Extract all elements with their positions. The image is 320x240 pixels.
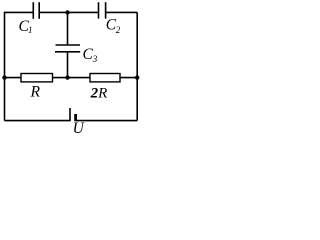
wire top left segment (4, 11, 34, 13)
wire middle center segment (53, 77, 91, 79)
wire middle right segment (120, 77, 137, 79)
wire middle left segment (5, 77, 22, 79)
wire C3 bottom lead (67, 52, 69, 78)
battery U long plate (69, 108, 71, 121)
capacitor C1 (33, 2, 39, 19)
battery U short thick plate (74, 114, 77, 121)
node junction center (65, 75, 69, 79)
svg-text:U: U (73, 120, 86, 134)
wire bottom right segment (76, 120, 138, 122)
wire bottom left segment (5, 120, 71, 122)
resistor R (21, 74, 53, 82)
capacitor C2 (99, 2, 106, 18)
svg-text:R: R (30, 83, 41, 100)
node junction right (135, 75, 139, 79)
svg-text:2R: 2R (90, 86, 108, 102)
resistor 2R (90, 74, 120, 82)
svg-text:1: 1 (28, 25, 33, 35)
capacitor C3 (55, 45, 80, 52)
node junction top center (65, 10, 69, 14)
label C2 (106, 17, 121, 35)
label C3 (83, 46, 98, 64)
svg-text:3: 3 (92, 54, 98, 64)
wire top middle segment (39, 11, 98, 13)
wire right edge (136, 12, 138, 120)
svg-text:2: 2 (116, 25, 121, 35)
label C1 (19, 18, 33, 35)
node junction left (2, 75, 6, 79)
wire left edge (4, 12, 6, 120)
wire C3 top lead (67, 12, 69, 45)
wire top right segment (106, 11, 138, 13)
